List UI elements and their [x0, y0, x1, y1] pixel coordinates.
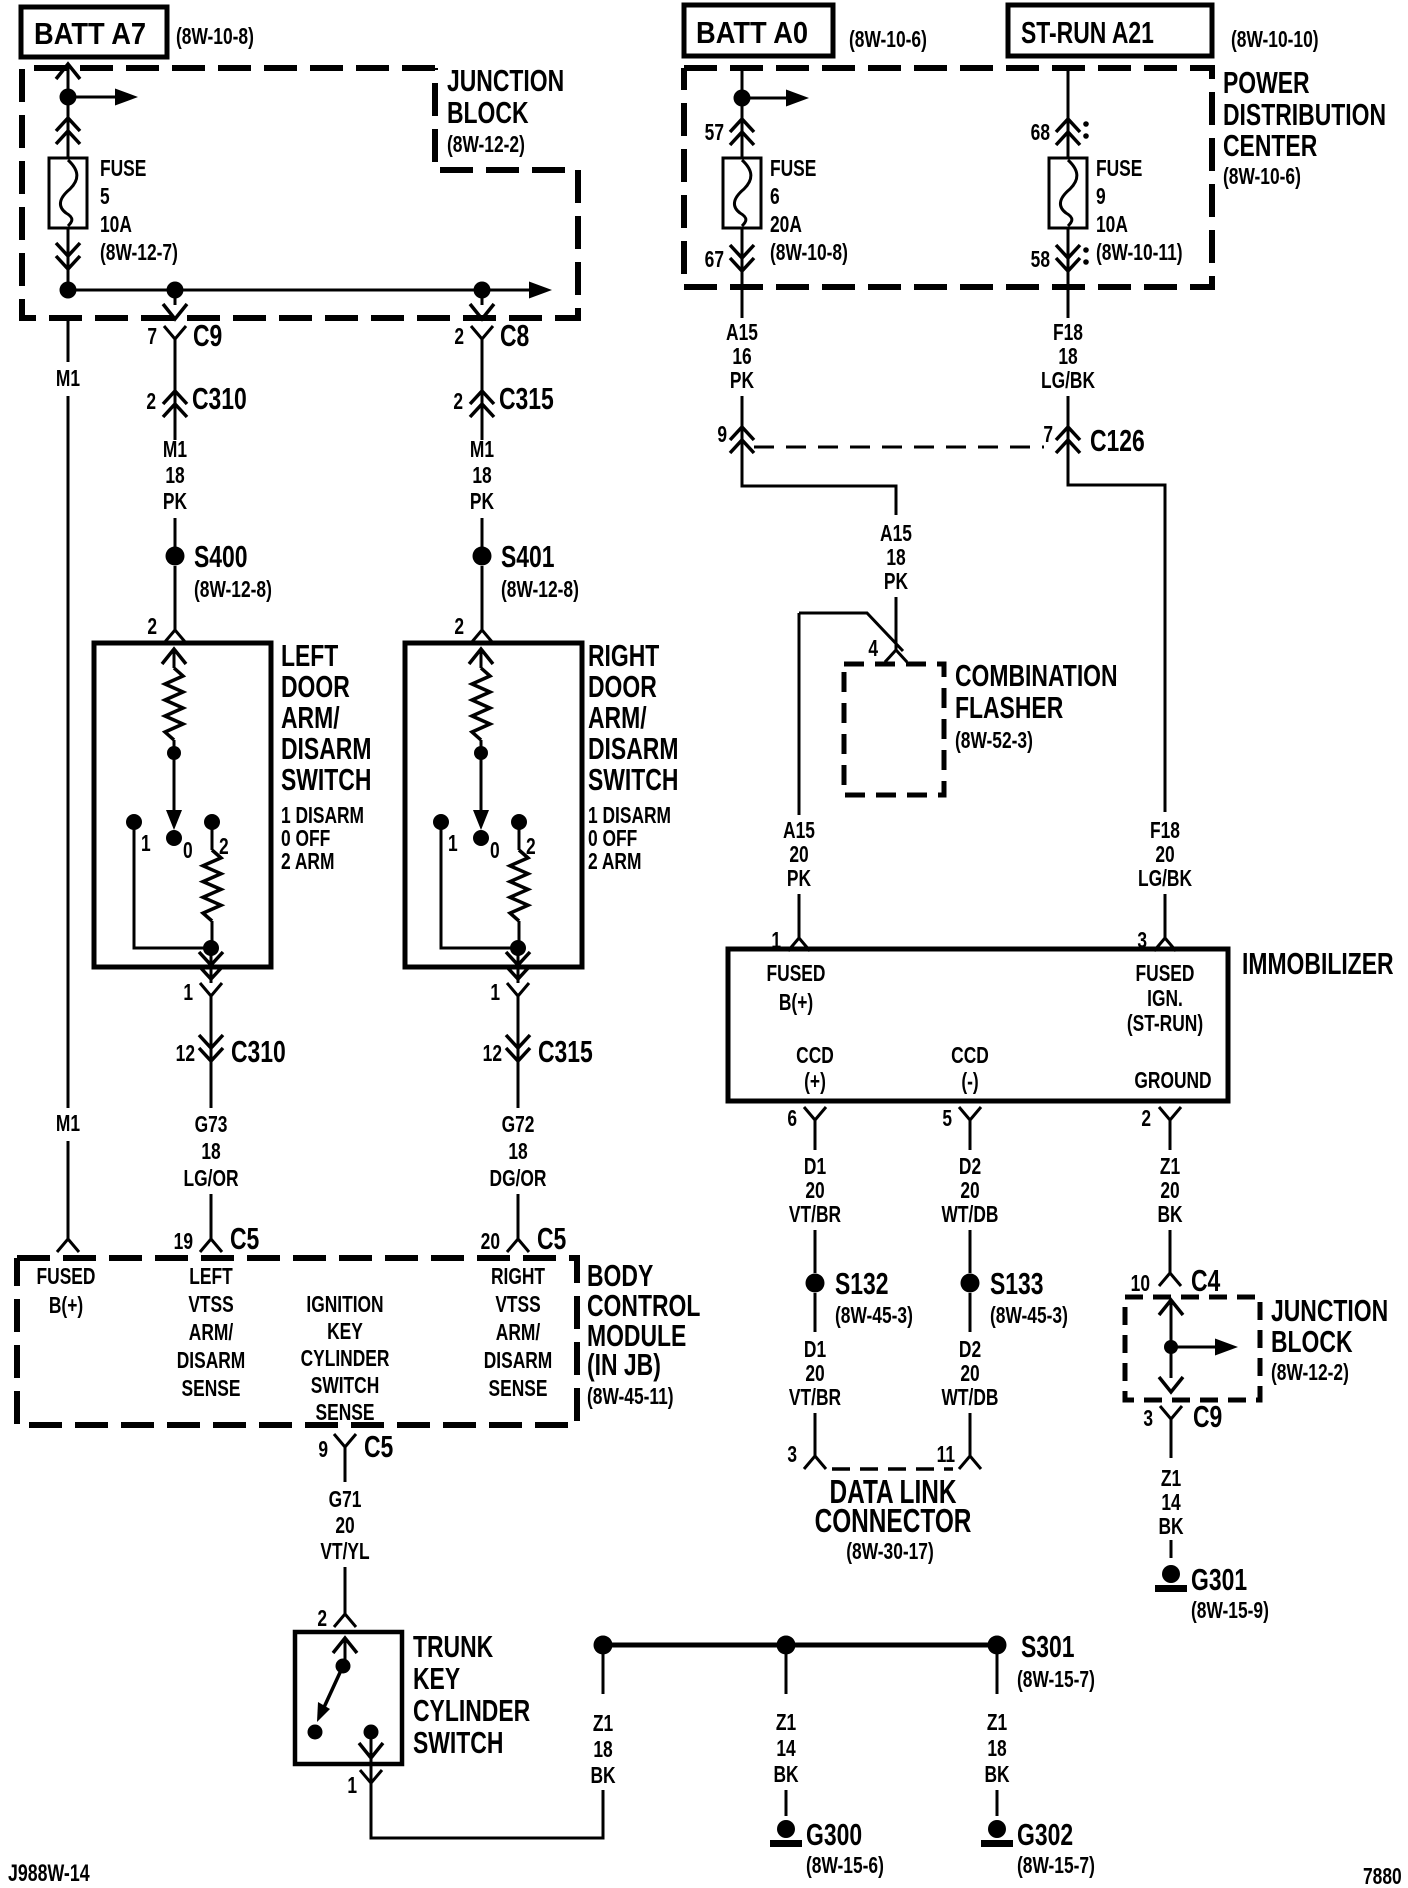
svg-text:1: 1: [347, 1773, 357, 1799]
svg-text:Z1: Z1: [593, 1711, 613, 1737]
svg-text:58: 58: [1031, 247, 1050, 273]
svg-text:18: 18: [886, 545, 905, 571]
svg-text:(ST-RUN): (ST-RUN): [1127, 1011, 1203, 1037]
svg-text:CONNECTOR: CONNECTOR: [815, 1504, 972, 1540]
svg-text:2 ARM: 2 ARM: [588, 849, 641, 875]
svg-text:(+): (+): [804, 1069, 826, 1095]
svg-text:2: 2: [454, 324, 464, 350]
svg-text:G71: G71: [329, 1487, 362, 1513]
svg-text:18: 18: [987, 1736, 1006, 1762]
svg-text:FUSE: FUSE: [770, 156, 816, 182]
svg-text:S401: S401: [501, 539, 555, 574]
svg-text:CENTER: CENTER: [1223, 128, 1318, 163]
svg-text:(8W-12-7): (8W-12-7): [100, 240, 178, 266]
svg-text:ARM/: ARM/: [189, 1320, 234, 1346]
svg-text:M1: M1: [56, 1111, 80, 1137]
svg-text:IGN.: IGN.: [1147, 986, 1183, 1012]
svg-text:RIGHT: RIGHT: [588, 638, 660, 673]
svg-text:(8W-15-9): (8W-15-9): [1191, 1598, 1269, 1624]
svg-text:(-): (-): [961, 1069, 978, 1095]
svg-text:C9: C9: [1193, 1399, 1222, 1434]
svg-text:67: 67: [705, 247, 724, 273]
svg-text:6: 6: [770, 184, 780, 210]
svg-text:SENSE: SENSE: [182, 1376, 241, 1402]
svg-text:LEFT: LEFT: [281, 638, 339, 673]
svg-text:12: 12: [176, 1041, 195, 1067]
svg-text:DOOR: DOOR: [281, 669, 350, 704]
svg-text:M1: M1: [163, 437, 187, 463]
svg-text:PK: PK: [470, 489, 494, 515]
svg-text:18: 18: [472, 463, 491, 489]
svg-text:M1: M1: [470, 437, 494, 463]
svg-text:VTSS: VTSS: [188, 1292, 233, 1318]
svg-text:S132: S132: [835, 1266, 889, 1301]
svg-text:JUNCTION: JUNCTION: [447, 63, 564, 98]
svg-text:(8W-10-8): (8W-10-8): [770, 240, 848, 266]
svg-text:D2: D2: [959, 1154, 981, 1180]
svg-text:SWITCH: SWITCH: [311, 1373, 380, 1399]
svg-text:FUSE: FUSE: [1096, 156, 1142, 182]
svg-text:ST-RUN A21: ST-RUN A21: [1021, 15, 1154, 50]
svg-text:19: 19: [174, 1229, 193, 1255]
svg-text:2: 2: [147, 614, 157, 640]
svg-text:(8W-10-11): (8W-10-11): [1096, 240, 1183, 266]
svg-text:TRUNK: TRUNK: [413, 1629, 493, 1664]
svg-text:20: 20: [805, 1361, 824, 1387]
svg-text:A15: A15: [880, 521, 912, 547]
svg-text:S133: S133: [990, 1266, 1044, 1301]
svg-text:A15: A15: [726, 320, 758, 346]
svg-text:BK: BK: [773, 1762, 798, 1788]
svg-text:14: 14: [776, 1736, 796, 1762]
svg-text:PK: PK: [884, 569, 908, 595]
svg-text:ARM/: ARM/: [496, 1320, 541, 1346]
svg-text:A15: A15: [783, 818, 815, 844]
svg-text:2: 2: [453, 389, 463, 415]
svg-text:C4: C4: [1191, 1263, 1221, 1298]
svg-text:C5: C5: [230, 1221, 259, 1256]
svg-text:DISARM: DISARM: [281, 731, 371, 766]
svg-text:2: 2: [317, 1606, 327, 1632]
svg-text:ARM/: ARM/: [588, 700, 647, 735]
svg-text:(8W-15-7): (8W-15-7): [1017, 1853, 1095, 1879]
svg-text:FUSED: FUSED: [767, 961, 826, 987]
svg-text:20: 20: [805, 1178, 824, 1204]
svg-text:(8W-10-8): (8W-10-8): [176, 24, 254, 50]
svg-text:11: 11: [937, 1442, 955, 1468]
svg-text:G300: G300: [806, 1817, 862, 1852]
svg-text:Z1: Z1: [987, 1710, 1007, 1736]
svg-text:S400: S400: [194, 539, 248, 574]
svg-text:C126: C126: [1090, 423, 1145, 458]
svg-text:PK: PK: [730, 368, 754, 394]
svg-text:G73: G73: [195, 1112, 228, 1138]
svg-text:9: 9: [717, 422, 727, 448]
svg-text:20: 20: [960, 1361, 979, 1387]
svg-text:B(+): B(+): [779, 990, 813, 1016]
svg-text:SWITCH: SWITCH: [281, 762, 371, 797]
svg-text:Z1: Z1: [776, 1710, 796, 1736]
svg-text:C315: C315: [499, 381, 554, 416]
svg-text:BK: BK: [1158, 1514, 1183, 1540]
svg-text:BK: BK: [1157, 1202, 1182, 1228]
svg-text:G301: G301: [1191, 1562, 1247, 1597]
svg-text:(8W-45-3): (8W-45-3): [835, 1303, 913, 1329]
svg-text:(8W-15-7): (8W-15-7): [1017, 1667, 1095, 1693]
svg-text:C5: C5: [537, 1221, 566, 1256]
svg-text:LEFT: LEFT: [189, 1264, 233, 1290]
svg-text:BK: BK: [590, 1763, 615, 1789]
svg-text:DISTRIBUTION: DISTRIBUTION: [1223, 97, 1386, 132]
svg-text:14: 14: [1161, 1490, 1181, 1516]
svg-text:1: 1: [448, 831, 458, 857]
svg-text:BLOCK: BLOCK: [1271, 1324, 1353, 1359]
svg-text:LG/OR: LG/OR: [183, 1166, 238, 1192]
svg-text:C315: C315: [538, 1034, 593, 1069]
svg-text:68: 68: [1031, 120, 1050, 146]
svg-text:DISARM: DISARM: [484, 1348, 553, 1374]
svg-text:0: 0: [490, 838, 500, 864]
svg-text:F18: F18: [1053, 320, 1083, 346]
svg-text:4: 4: [868, 636, 878, 662]
svg-text:(8W-12-8): (8W-12-8): [501, 577, 579, 603]
svg-text:DG/OR: DG/OR: [490, 1166, 547, 1192]
svg-text:20: 20: [789, 842, 808, 868]
svg-text:16: 16: [732, 344, 751, 370]
svg-text:9: 9: [318, 1437, 328, 1463]
svg-text:S301: S301: [1021, 1629, 1075, 1664]
svg-text:D1: D1: [804, 1337, 826, 1363]
svg-text:10A: 10A: [100, 212, 132, 238]
svg-text:WT/DB: WT/DB: [942, 1385, 999, 1411]
svg-text:18: 18: [593, 1737, 612, 1763]
svg-text:POWER: POWER: [1223, 65, 1310, 100]
svg-text:CCD: CCD: [796, 1043, 834, 1069]
svg-text:FLASHER: FLASHER: [955, 690, 1064, 725]
svg-text:LG/BK: LG/BK: [1041, 368, 1095, 394]
svg-text:FUSE: FUSE: [100, 156, 146, 182]
svg-text:10: 10: [1131, 1271, 1150, 1297]
svg-text:SENSE: SENSE: [489, 1376, 548, 1402]
svg-text:IMMOBILIZER: IMMOBILIZER: [1242, 946, 1394, 981]
svg-text:(8W-30-17): (8W-30-17): [846, 1539, 934, 1565]
svg-text:0: 0: [183, 838, 193, 864]
svg-text:ARM/: ARM/: [281, 700, 340, 735]
svg-text:2: 2: [1141, 1106, 1151, 1132]
svg-text:CCD: CCD: [951, 1043, 989, 1069]
svg-text:1: 1: [141, 831, 151, 857]
svg-text:DISARM: DISARM: [177, 1348, 246, 1374]
svg-text:JUNCTION: JUNCTION: [1271, 1293, 1388, 1328]
svg-text:GROUND: GROUND: [1134, 1068, 1211, 1094]
svg-text:6: 6: [787, 1106, 797, 1132]
svg-text:2: 2: [146, 389, 156, 415]
svg-text:CYLINDER: CYLINDER: [413, 1693, 530, 1728]
svg-text:5: 5: [100, 184, 110, 210]
svg-text:7: 7: [1043, 422, 1053, 448]
svg-text:BLOCK: BLOCK: [447, 95, 529, 130]
svg-text:2 ARM: 2 ARM: [281, 849, 334, 875]
svg-text:J988W-14: J988W-14: [8, 1861, 90, 1887]
svg-text:10A: 10A: [1096, 212, 1128, 238]
svg-text:(8W-10-6): (8W-10-6): [1223, 164, 1301, 190]
svg-text:CYLINDER: CYLINDER: [301, 1346, 390, 1372]
svg-text:(8W-45-11): (8W-45-11): [587, 1384, 674, 1410]
svg-text:(8W-10-6): (8W-10-6): [849, 27, 927, 53]
svg-text:RIGHT: RIGHT: [491, 1264, 545, 1290]
svg-text:18: 18: [508, 1139, 527, 1165]
svg-text:20: 20: [960, 1178, 979, 1204]
svg-text:BATT A7: BATT A7: [34, 17, 146, 51]
svg-text:(8W-52-3): (8W-52-3): [955, 728, 1033, 754]
svg-text:D1: D1: [804, 1154, 826, 1180]
svg-text:BK: BK: [984, 1762, 1009, 1788]
svg-text:(8W-10-10): (8W-10-10): [1231, 27, 1319, 53]
svg-text:(8W-12-2): (8W-12-2): [447, 132, 525, 158]
svg-text:12: 12: [483, 1041, 502, 1067]
svg-text:BATT A0: BATT A0: [696, 16, 808, 50]
svg-text:VT/BR: VT/BR: [789, 1202, 841, 1228]
svg-text:DISARM: DISARM: [588, 731, 678, 766]
svg-text:VTSS: VTSS: [495, 1292, 540, 1318]
svg-text:9: 9: [1096, 184, 1106, 210]
svg-text:(IN JB): (IN JB): [587, 1347, 661, 1382]
svg-text:3: 3: [787, 1442, 797, 1468]
svg-text:1: 1: [183, 980, 193, 1006]
svg-text:FUSED: FUSED: [37, 1264, 96, 1290]
svg-text:IGNITION: IGNITION: [306, 1292, 383, 1318]
svg-text:B(+): B(+): [49, 1293, 83, 1319]
svg-text:WT/DB: WT/DB: [942, 1202, 999, 1228]
svg-text:Z1: Z1: [1160, 1154, 1180, 1180]
svg-text:2: 2: [454, 614, 464, 640]
svg-text:VT/YL: VT/YL: [320, 1539, 369, 1565]
svg-text:20A: 20A: [770, 212, 802, 238]
svg-text:SWITCH: SWITCH: [588, 762, 678, 797]
svg-text:20: 20: [481, 1229, 500, 1255]
svg-text:KEY: KEY: [327, 1319, 363, 1345]
svg-text:VT/BR: VT/BR: [789, 1385, 841, 1411]
svg-text:5: 5: [942, 1106, 952, 1132]
svg-text:PK: PK: [163, 489, 187, 515]
svg-text:COMBINATION: COMBINATION: [955, 658, 1118, 693]
svg-text:G302: G302: [1017, 1817, 1073, 1852]
svg-text:1: 1: [490, 980, 500, 1006]
svg-text:C9: C9: [193, 318, 222, 353]
svg-text:18: 18: [201, 1139, 220, 1165]
svg-text:M1: M1: [56, 366, 80, 392]
svg-text:F18: F18: [1150, 818, 1180, 844]
svg-text:C5: C5: [364, 1429, 393, 1464]
svg-text:(8W-12-2): (8W-12-2): [1271, 1360, 1349, 1386]
svg-text:C310: C310: [192, 381, 247, 416]
svg-text:KEY: KEY: [413, 1661, 460, 1696]
svg-text:(8W-15-6): (8W-15-6): [806, 1853, 884, 1879]
svg-text:FUSED: FUSED: [1136, 961, 1195, 987]
svg-text:LG/BK: LG/BK: [1138, 866, 1192, 892]
svg-text:18: 18: [1058, 344, 1077, 370]
svg-text:DOOR: DOOR: [588, 669, 657, 704]
svg-text:20: 20: [335, 1513, 354, 1539]
svg-text:7: 7: [147, 324, 157, 350]
svg-text:3: 3: [1143, 1406, 1153, 1432]
svg-text:C8: C8: [500, 318, 529, 353]
svg-text:PK: PK: [787, 866, 811, 892]
svg-text:20: 20: [1155, 842, 1174, 868]
svg-text:18: 18: [165, 463, 184, 489]
svg-text:20: 20: [1160, 1178, 1179, 1204]
svg-text:7880: 7880: [1363, 1864, 1402, 1888]
svg-text:(8W-45-3): (8W-45-3): [990, 1303, 1068, 1329]
svg-text:SWITCH: SWITCH: [413, 1725, 503, 1760]
svg-text:D2: D2: [959, 1337, 981, 1363]
svg-text:Z1: Z1: [1161, 1466, 1181, 1492]
svg-text:G72: G72: [502, 1112, 535, 1138]
svg-text:C310: C310: [231, 1034, 286, 1069]
svg-text:SENSE: SENSE: [316, 1400, 375, 1426]
svg-text:57: 57: [705, 120, 724, 146]
svg-text:(8W-12-8): (8W-12-8): [194, 577, 272, 603]
